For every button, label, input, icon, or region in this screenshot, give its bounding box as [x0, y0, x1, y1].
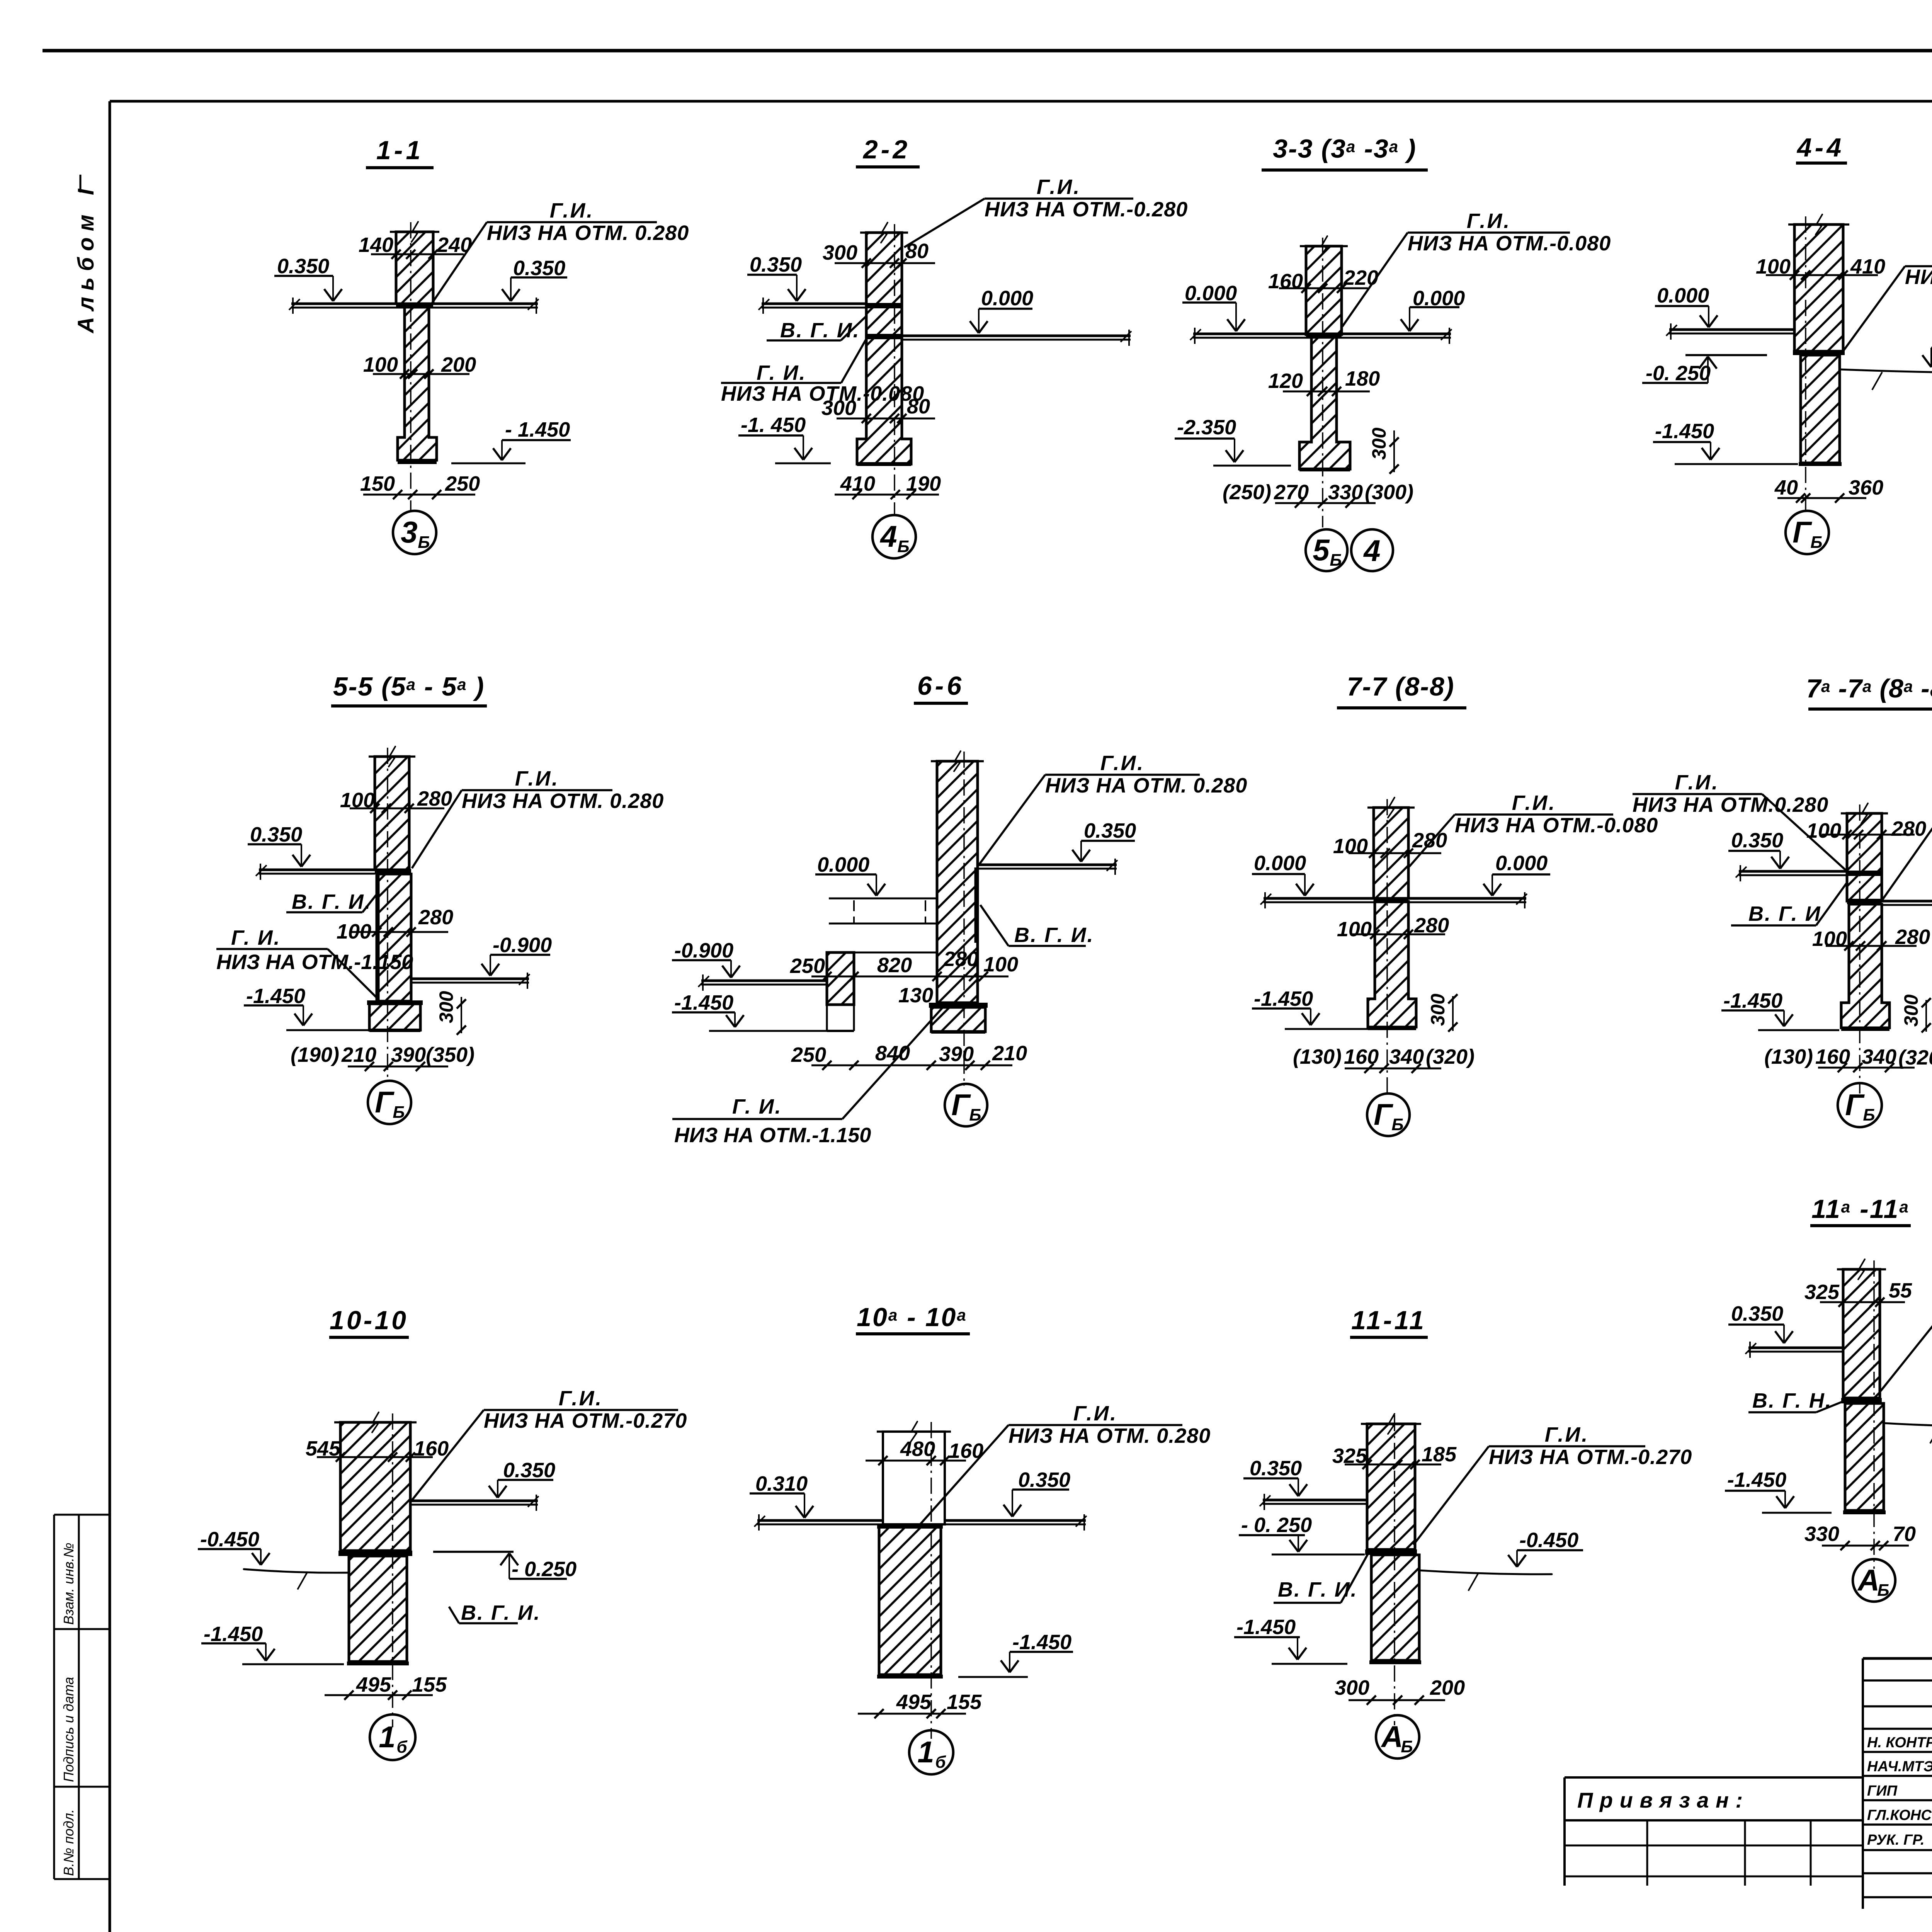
- section 7a-7a waterproofing bands: [1847, 871, 1882, 876]
- section 10-10 leader Г.И. НИЗ НА ОТМ.-0.270: [484, 1409, 678, 1411]
- section 11a-11a column lower: [1845, 1403, 1884, 1510]
- section 5-5 waterproofing: [375, 869, 411, 874]
- section 6-6 circle Гб: [945, 1084, 987, 1126]
- svg-text:НИЗ НА ОТМ. 0.280: НИЗ НА ОТМ. 0.280: [487, 221, 689, 245]
- svg-text:6-6: 6-6: [917, 671, 964, 701]
- section 2-2 ground right 0.000: [902, 335, 1131, 337]
- svg-text:280: 280: [943, 947, 978, 971]
- svg-text:210: 210: [992, 1042, 1027, 1065]
- svg-text:-1.450: -1.450: [674, 991, 733, 1014]
- svg-text:-1. 450: -1. 450: [741, 413, 806, 437]
- svg-text:280: 280: [1412, 829, 1447, 852]
- section 6-6 wall membrane right: [975, 867, 978, 943]
- svg-text:130: 130: [898, 984, 933, 1007]
- svg-text:Б: Б: [418, 533, 430, 552]
- svg-text:360: 360: [1849, 476, 1883, 499]
- svg-text:-1.450: -1.450: [1723, 989, 1782, 1012]
- section 2-2 axis circle 4Б: [872, 515, 916, 558]
- section 11-11 column lower: [1371, 1555, 1419, 1660]
- section 7a-7a left leader Г.И. НИЗ НА ОТМ.0.280: [1633, 793, 1762, 795]
- svg-text:НИЗ НА ОТМ.-0.280: НИЗ НА ОТМ.-0.280: [985, 198, 1188, 221]
- section 6-6 main wall: [937, 761, 978, 1003]
- section 10a-10a circle 1б: [909, 1730, 953, 1774]
- section 3-3 wall upper: [1306, 246, 1342, 335]
- svg-text:(190): (190): [291, 1043, 339, 1066]
- svg-text:Б: Б: [1877, 1581, 1889, 1600]
- svg-text:-0.450: -0.450: [200, 1528, 259, 1551]
- svg-text:330: 330: [1804, 1522, 1839, 1546]
- svg-text:155: 155: [947, 1690, 982, 1714]
- svg-text:280: 280: [1891, 817, 1926, 840]
- svg-text:1: 1: [917, 1735, 934, 1769]
- svg-text:НИЗ НА ОТМ.-0.080: НИЗ НА ОТМ.-0.080: [1408, 232, 1611, 255]
- svg-text:(250): (250): [1223, 481, 1271, 504]
- svg-text:100: 100: [1812, 927, 1847, 951]
- section 7-7 ground 0.000 both: [1264, 897, 1526, 900]
- svg-text:40: 40: [1774, 476, 1798, 499]
- section 3-3 axis: [1322, 238, 1323, 527]
- section 10-10 axis: [392, 1413, 393, 1727]
- svg-text:Альбом: Альбом: [73, 208, 99, 334]
- svg-text:Б: Б: [1330, 551, 1342, 570]
- section 4-4 elev -0.250 left (up arrow): [1685, 354, 1767, 356]
- section 4-4 column lower: [1801, 355, 1840, 463]
- section 2-2 wall (hatched): [857, 233, 911, 464]
- svg-text:Г. И.: Г. И.: [732, 1095, 782, 1118]
- svg-text:0.000: 0.000: [817, 853, 869, 876]
- svg-text:210: 210: [341, 1043, 376, 1066]
- section 10-10 column lower: [349, 1556, 407, 1662]
- section 1-1 wall upper (hatched): [396, 232, 433, 304]
- svg-text:185: 185: [1422, 1443, 1457, 1466]
- svg-text:б: б: [396, 1738, 408, 1757]
- section 11a-11a wall upper: [1843, 1269, 1880, 1398]
- svg-text:В. Г. Н.: В. Г. Н.: [1752, 1389, 1832, 1412]
- svg-text:А: А: [1381, 1719, 1403, 1753]
- section 7-7 column lower + foot: [1368, 901, 1416, 1027]
- svg-text:НИЗ НА ОТМ. 0.280: НИЗ НА ОТМ. 0.280: [1009, 1424, 1211, 1447]
- svg-text:10а - 10а: 10а - 10а: [857, 1303, 967, 1332]
- section 1-1 column lower + foot (hatched): [398, 307, 437, 460]
- svg-text:155: 155: [412, 1673, 447, 1696]
- svg-text:Подпись и дата: Подпись и дата: [61, 1677, 77, 1782]
- section 11a-11a axis: [1873, 1260, 1875, 1569]
- section 6-6 foot: [931, 1007, 985, 1032]
- section 7a-7a axis: [1859, 804, 1861, 1094]
- svg-text:Г. И.: Г. И.: [231, 926, 281, 949]
- section 7-7 leader Г.И. НИЗ НА ОТМ.-0.080: [1455, 813, 1613, 816]
- svg-text:140: 140: [359, 233, 393, 257]
- svg-text:180: 180: [1345, 367, 1380, 390]
- section 1-1 axis: [410, 222, 412, 510]
- svg-text:4: 4: [1363, 534, 1380, 568]
- section 5-5 ground left 0.350: [259, 869, 375, 871]
- svg-text:100: 100: [1333, 835, 1368, 858]
- svg-text:Г.И.: Г.И.: [1467, 209, 1511, 233]
- svg-text:(300): (300): [1365, 481, 1413, 504]
- svg-text:120: 120: [1268, 369, 1303, 393]
- svg-text:7-7 (8-8): 7-7 (8-8): [1347, 672, 1455, 701]
- svg-text:-0.450: -0.450: [1519, 1529, 1578, 1552]
- svg-text:0.350: 0.350: [1731, 829, 1783, 852]
- svg-text:(130): (130): [1293, 1045, 1342, 1068]
- svg-text:11-11: 11-11: [1351, 1306, 1426, 1335]
- svg-text:0.350: 0.350: [250, 823, 302, 846]
- svg-text:В.№ подл.: В.№ подл.: [61, 1809, 77, 1876]
- svg-text:2-2: 2-2: [862, 135, 910, 164]
- section 3-3 vertical dim 300: [1393, 430, 1395, 472]
- svg-text:- 0. 250: - 0. 250: [1241, 1514, 1312, 1537]
- svg-text:300: 300: [823, 241, 857, 264]
- svg-text:НИЗ НА ОТМ.-0.270: НИЗ НА ОТМ.-0.270: [1489, 1446, 1692, 1469]
- section 10a-10a foundation (hatched): [879, 1526, 941, 1675]
- svg-text:Г: Г: [951, 1088, 971, 1122]
- svg-text:200: 200: [1430, 1676, 1465, 1699]
- svg-text:0.350: 0.350: [1018, 1468, 1070, 1492]
- svg-text:1-1: 1-1: [376, 136, 423, 165]
- svg-text:В. Г. И.: В. Г. И.: [461, 1601, 541, 1624]
- svg-text:(320): (320): [1426, 1045, 1475, 1068]
- svg-text:0.350: 0.350: [503, 1459, 555, 1482]
- section 4-4 wall upper wide: [1794, 224, 1843, 351]
- svg-text:-1.450: -1.450: [246, 985, 305, 1008]
- svg-text:5: 5: [1313, 533, 1330, 567]
- section 6-6 pool slab left: [829, 898, 937, 900]
- section 10a-10a leader Г.И. НИЗ НА ОТМ. 0.280: [1009, 1424, 1182, 1426]
- table Привязан: [1565, 1776, 1864, 1779]
- section 7-7 wall upper: [1374, 808, 1408, 898]
- svg-text:П р и в я з а н :: П р и в я з а н :: [1577, 1788, 1743, 1812]
- section 10-10 wall upper wide: [340, 1422, 410, 1551]
- svg-text:390: 390: [391, 1043, 426, 1066]
- section 3-3 leader Г.И. НИЗ НА ОТМ.-0.080: [1408, 231, 1570, 234]
- section 1-1 axis circle 3Б: [393, 511, 436, 554]
- svg-text:ГИП: ГИП: [1867, 1783, 1898, 1799]
- section 6-6 pool wall left (hatched): [827, 952, 854, 1005]
- section 5-5 circle Гб: [368, 1081, 411, 1124]
- svg-text:В. Г. И.: В. Г. И.: [780, 319, 860, 342]
- svg-text:Б: Б: [1391, 1115, 1403, 1134]
- svg-text:Б: Б: [393, 1103, 405, 1122]
- svg-text:3: 3: [401, 515, 417, 549]
- svg-text:НИЗ НА ОТМ.-1.150: НИЗ НА ОТМ.-1.150: [674, 1124, 871, 1147]
- svg-text:330: 330: [1328, 481, 1363, 504]
- svg-text:Г: Г: [1793, 515, 1812, 549]
- svg-text:820: 820: [877, 954, 912, 977]
- svg-text:0.000: 0.000: [1657, 284, 1709, 307]
- svg-text:200: 200: [441, 353, 476, 376]
- svg-text:НИЗ НА ОТМ.-0.080: НИЗ НА ОТМ.-0.080: [1455, 814, 1658, 837]
- svg-text:80: 80: [907, 395, 930, 418]
- svg-text:НИЗ НА ОТМ.-1.150: НИЗ НА ОТМ.-1.150: [216, 951, 413, 974]
- frame top border: [110, 100, 1932, 103]
- svg-text:1: 1: [379, 1720, 395, 1754]
- svg-text:б: б: [935, 1753, 946, 1772]
- svg-text:I: I: [73, 188, 99, 195]
- svg-text:ГЛ.КОНСТР: ГЛ.КОНСТР: [1867, 1807, 1932, 1823]
- svg-text:11а -11а: 11а -11а: [1811, 1194, 1910, 1224]
- svg-text:Б: Б: [1401, 1737, 1413, 1756]
- section 5-5 foot: [369, 1004, 420, 1030]
- svg-text:Г. И.: Г. И.: [757, 361, 806, 384]
- section 2-2 waterproofing bands: [866, 303, 902, 308]
- section 5-5 wall upper: [375, 757, 409, 870]
- section 5-5 wall lower: [377, 874, 411, 1001]
- svg-text:-1.450: -1.450: [1254, 987, 1313, 1010]
- svg-text:Г: Г: [1845, 1088, 1865, 1122]
- svg-text:НИЗ НА ОТМ. 0.280: НИЗ НА ОТМ. 0.280: [1045, 774, 1247, 797]
- svg-text:4-4: 4-4: [1796, 133, 1844, 162]
- section 10-10 circle 1б: [370, 1714, 415, 1760]
- svg-text:Г.И.: Г.И.: [515, 767, 560, 790]
- section 6-6 axis: [963, 752, 965, 1086]
- svg-text:0.000: 0.000: [1185, 282, 1237, 305]
- svg-text:НИЗ НА ОТМ.0.280: НИЗ НА ОТМ.0.280: [1633, 793, 1828, 816]
- svg-text:Г.И.: Г.И.: [1100, 752, 1145, 775]
- svg-text:Г.И.: Г.И.: [1675, 771, 1719, 794]
- section 7-7 circle Гб: [1367, 1094, 1410, 1136]
- svg-text:-0.900: -0.900: [493, 934, 552, 957]
- section 10a-10a axis: [930, 1422, 932, 1739]
- svg-text:100: 100: [1337, 918, 1372, 941]
- svg-text:0.350: 0.350: [1731, 1302, 1783, 1325]
- section 7a-7a column lower + foot: [1841, 904, 1889, 1028]
- svg-text:Б: Б: [969, 1105, 981, 1124]
- svg-text:840: 840: [875, 1042, 910, 1065]
- svg-text:4: 4: [879, 519, 897, 553]
- svg-text:0.350: 0.350: [1250, 1457, 1302, 1480]
- svg-text:-1.450: -1.450: [1236, 1616, 1296, 1639]
- section 11a-11a circle Аб: [1853, 1559, 1895, 1602]
- title block stamp: [1862, 1658, 1864, 1909]
- svg-text:150: 150: [360, 472, 395, 495]
- svg-text:495: 495: [896, 1690, 932, 1714]
- section 1-1 ground line 0.350: [291, 303, 538, 305]
- svg-text:0.000: 0.000: [981, 287, 1033, 310]
- svg-text:300: 300: [1368, 427, 1390, 460]
- section 3-3 ground 0.000 both sides: [1193, 333, 1451, 335]
- svg-text:0.350: 0.350: [750, 253, 802, 276]
- svg-text:НИЗ НА ОТМ. 0.280: НИЗ НА ОТМ. 0.280: [462, 789, 664, 813]
- svg-text:Г.И.: Г.И.: [1512, 791, 1556, 815]
- svg-text:(350): (350): [426, 1043, 474, 1066]
- svg-text:-1.450: -1.450: [1727, 1468, 1786, 1492]
- section 7a-7a vertical dim 300: [1925, 1000, 1927, 1032]
- svg-text:(320): (320): [1898, 1046, 1932, 1069]
- frame left border: [109, 101, 111, 1932]
- section 10a-10a upper box (unhatched): [883, 1432, 945, 1524]
- svg-text:-1.450: -1.450: [204, 1622, 263, 1646]
- svg-text:250: 250: [790, 954, 825, 978]
- section 2-2 ground left 0.350: [762, 303, 866, 305]
- svg-text:Г.И.: Г.И.: [550, 199, 594, 222]
- section 11-11 leader Г.И. НИЗ НА ОТМ.-0.270: [1489, 1445, 1645, 1447]
- section 1-1 leader Г.И. НИЗ НА ОТМ. 0.280: [487, 221, 657, 223]
- svg-text:А: А: [1857, 1563, 1879, 1597]
- svg-text:480: 480: [900, 1437, 935, 1461]
- svg-text:0.310: 0.310: [755, 1472, 808, 1495]
- svg-text:- 1.450: - 1.450: [505, 418, 570, 441]
- svg-text:0.350: 0.350: [1084, 819, 1136, 842]
- svg-text:55: 55: [1889, 1279, 1912, 1302]
- svg-text:В. Г. И.: В. Г. И.: [1278, 1578, 1358, 1601]
- section 7a-7a wall upper: [1847, 813, 1882, 901]
- svg-text:-1.450: -1.450: [1655, 420, 1714, 443]
- svg-text:300: 300: [1900, 994, 1922, 1027]
- svg-text:Н. КОНТР.: Н. КОНТР.: [1867, 1735, 1932, 1751]
- section 7a-7a circle Гб: [1838, 1083, 1882, 1127]
- section 7-7 vertical dim 300: [1452, 996, 1454, 1031]
- svg-text:Г: Г: [375, 1085, 395, 1119]
- svg-text:80: 80: [905, 240, 929, 263]
- svg-text:В. Г. И.: В. Г. И.: [1014, 923, 1094, 947]
- svg-text:НИЗ НА ОТМ.-0.270: НИЗ НА ОТМ.-0.270: [484, 1409, 687, 1432]
- svg-text:0.000: 0.000: [1254, 852, 1306, 875]
- svg-text:-1.450: -1.450: [1012, 1631, 1071, 1654]
- svg-text:300: 300: [1427, 993, 1449, 1026]
- svg-text:100: 100: [363, 353, 398, 376]
- svg-text:Взам. инв.№: Взам. инв.№: [61, 1543, 77, 1625]
- section 4-4 leader Г.И. НИЗ НА ОТМ.-0.270: [1905, 265, 1932, 267]
- svg-text:190: 190: [906, 472, 941, 495]
- svg-text:Б: Б: [1863, 1105, 1875, 1124]
- left side column table: [53, 1515, 55, 1879]
- svg-text:Б: Б: [1810, 533, 1822, 552]
- svg-text:В. Г. И: В. Г. И: [1748, 902, 1821, 925]
- svg-text:Г.И.: Г.И.: [1073, 1402, 1118, 1425]
- section 2-2 axis: [894, 224, 895, 514]
- section 7-7 axis: [1386, 799, 1388, 1094]
- svg-text:410: 410: [840, 472, 875, 495]
- svg-text:390: 390: [939, 1043, 974, 1066]
- svg-text:280: 280: [417, 787, 452, 810]
- svg-text:495: 495: [356, 1673, 391, 1696]
- section 11-11 wall upper: [1367, 1424, 1415, 1549]
- section 10-10 elev -0.250 right (up arrow): [433, 1551, 514, 1553]
- section 2-2 top leader Г.И. НИЗ НА ОТМ.-0.280: [985, 197, 1133, 200]
- svg-text:0.350: 0.350: [513, 257, 565, 280]
- svg-text:РУК. ГР.: РУК. ГР.: [1867, 1832, 1925, 1848]
- svg-text:250: 250: [445, 472, 480, 495]
- svg-text:-2.350: -2.350: [1177, 416, 1236, 439]
- svg-text:300: 300: [435, 991, 457, 1023]
- section 3-3 circles 5Б and 4: [1306, 529, 1347, 571]
- svg-text:250: 250: [791, 1043, 826, 1066]
- svg-text:300: 300: [821, 396, 856, 420]
- svg-text:Г.И.: Г.И.: [1545, 1423, 1589, 1446]
- svg-text:Г.И.: Г.И.: [1037, 175, 1081, 199]
- svg-text:0.000: 0.000: [1495, 852, 1548, 875]
- section 5-5 leader Г.И. НИЗ НА ОТМ. 0.280: [462, 789, 612, 791]
- svg-text:(130): (130): [1764, 1045, 1813, 1068]
- section 4-4 axis: [1805, 216, 1806, 510]
- section 11-11 axis: [1394, 1415, 1395, 1725]
- section 4-4 ground left 0.000: [1669, 328, 1794, 331]
- svg-text:Г.И.: Г.И.: [559, 1387, 603, 1410]
- section 6-6 leader Г.И. НИЗ НА ОТМ. 0.280: [1045, 774, 1200, 776]
- svg-text:- 0.250: - 0.250: [512, 1558, 577, 1581]
- paper top edge line: [43, 49, 1932, 53]
- svg-text:В. Г. И.: В. Г. И.: [292, 890, 372, 913]
- section 5-5 vertical dim 300: [461, 997, 462, 1033]
- svg-text:220: 220: [1343, 266, 1378, 289]
- svg-text:300: 300: [1335, 1676, 1369, 1699]
- svg-text:НАЧ.МТЭП: НАЧ.МТЭП: [1867, 1759, 1932, 1775]
- section 5-5 axis: [387, 748, 388, 1082]
- svg-text:НИЗ НА ОТМ.-0.270: НИЗ НА ОТМ.-0.270: [1905, 265, 1932, 289]
- svg-text:325: 325: [1804, 1281, 1840, 1304]
- section 4-4 circle Гб: [1786, 511, 1829, 554]
- section 3-3 column lower + foot: [1299, 337, 1350, 469]
- svg-text:-0.900: -0.900: [674, 939, 733, 962]
- svg-text:280: 280: [418, 906, 453, 929]
- svg-text:Г: Г: [1374, 1097, 1393, 1131]
- svg-text:0.350: 0.350: [277, 255, 329, 278]
- section 11-11 circle Аб: [1376, 1715, 1419, 1759]
- svg-text:70: 70: [1893, 1522, 1916, 1546]
- svg-text:10-10: 10-10: [330, 1306, 408, 1335]
- section 10a-10a floors both sides: [757, 1519, 883, 1522]
- svg-text:Б: Б: [897, 537, 909, 556]
- svg-text:160: 160: [1268, 270, 1303, 293]
